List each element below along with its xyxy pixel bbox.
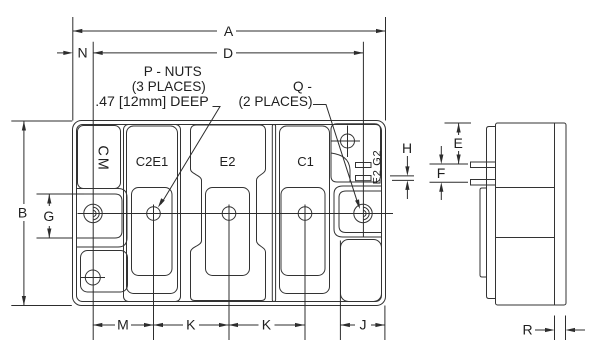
signal pin G2 [356, 163, 372, 168]
dimension N arrow (outside left) [57, 52, 64, 54]
dimension B extension bottom [11, 305, 72, 307]
svg-text:K: K [262, 317, 272, 333]
side view internal edge upper [496, 187, 555, 189]
centerline through C2E1 hole [153, 205, 155, 341]
dimension G extension bottom [37, 237, 73, 239]
svg-text:(2 PLACES): (2 PLACES) [238, 94, 312, 109]
svg-text:R: R [522, 322, 532, 338]
callout P leader line [161, 107, 220, 205]
dimension A extension line right [385, 17, 387, 121]
svg-text:C1: C1 [297, 154, 314, 169]
svg-text:H: H [402, 140, 412, 156]
Q hole left inner arc [93, 210, 96, 216]
corner hole crosshair horizontal [332, 140, 361, 142]
centerline through E2 hole [228, 205, 230, 341]
dimension D extension line left (through left Q hole, down to M) [92, 42, 94, 340]
svg-text:.47 [12mm] DEEP: .47 [12mm] DEEP [95, 94, 209, 110]
Q mounting hole left [84, 204, 102, 222]
recess C2E1 [132, 188, 173, 276]
callout Q leader line [313, 105, 359, 207]
dimension F extension line 2 [430, 181, 469, 183]
Q hole right counterbore arc [363, 207, 369, 219]
svg-text:B: B [18, 205, 27, 221]
svg-text:M: M [117, 317, 129, 333]
dimension F outside arrows [440, 146, 442, 155]
dimension A line [73, 30, 217, 32]
svg-text:P - NUTS: P - NUTS [144, 64, 202, 79]
svg-text:D: D [223, 45, 233, 61]
svg-text:F: F [437, 165, 446, 181]
svg-text:C2E1: C2E1 [136, 154, 169, 169]
side view pin 1 [471, 162, 496, 168]
svg-text:J: J [360, 317, 367, 333]
dimension M line [93, 324, 115, 326]
Q mounting hole right [354, 204, 372, 222]
P-nut hole E2 [222, 207, 236, 221]
dimension H lines [390, 175, 414, 177]
terminal compartment wall C2E1 [124, 125, 181, 302]
dimension G extension top [37, 193, 85, 195]
svg-text:A: A [224, 23, 234, 39]
corner hole crosshair vertical [347, 126, 349, 158]
side view left protrusion [480, 188, 487, 277]
side view base plate line [554, 123, 556, 305]
left ear inner lip [77, 194, 123, 238]
top-right signal block [331, 124, 381, 182]
terminal pad C1 [280, 126, 330, 294]
dimension K2 line [229, 324, 259, 326]
dimension B line [23, 121, 25, 204]
CM logo block [78, 126, 121, 189]
svg-text:G: G [43, 208, 54, 224]
bottom extension module right corner [384, 306, 386, 341]
dimension R line and arrows [535, 329, 546, 331]
side view internal edge lower [496, 237, 555, 239]
terminal pad E2 (dog-bone) [191, 125, 266, 301]
svg-text:E2 G2: E2 G2 [371, 150, 383, 185]
bottom-left mounting hole [85, 270, 100, 285]
dimension A extension line left [72, 17, 74, 121]
dimension K1 line [154, 324, 184, 326]
dimension D extension line right (through right Q hole) [362, 42, 364, 237]
module inner lip contour [77, 125, 382, 302]
dimension G line [48, 194, 50, 206]
svg-text:N: N [77, 45, 87, 61]
svg-text:(3 PLACES): (3 PLACES) [132, 79, 206, 94]
svg-text:Q -: Q - [293, 79, 312, 94]
Q hole right inner arc [363, 210, 366, 216]
left mounting ear [77, 189, 128, 248]
signal block inner curve [331, 153, 350, 182]
svg-text:E2: E2 [220, 154, 236, 169]
corner hole top-right [341, 134, 355, 148]
bottom-right corner block [341, 240, 382, 302]
terminal pad C2E1 [127, 126, 178, 294]
main horizontal centerline [78, 213, 394, 215]
dimension B extension top [11, 120, 72, 122]
divider strip between E2 and C1 [272, 125, 275, 302]
P-nut hole C1 [298, 207, 312, 221]
centerline through C1 hole [304, 205, 306, 341]
recess C1 [281, 188, 325, 276]
right ear inner lip [339, 191, 382, 233]
svg-text:K: K [186, 317, 196, 333]
bottom-left corner block [81, 251, 128, 293]
bottom-left hole crosshair [81, 277, 105, 279]
dimension F extension line 1 [430, 163, 469, 165]
svg-text:E: E [454, 135, 463, 151]
recess E2 [206, 188, 250, 276]
side view pin 2 [471, 180, 496, 186]
module outer case outline (top view) [73, 121, 386, 306]
P-nut hole C2E1 [147, 207, 161, 221]
signal pin E2 [356, 176, 372, 181]
dimension E line [458, 123, 460, 135]
svg-text:CM: CM [95, 145, 111, 171]
side view lid strip [487, 127, 496, 299]
dimension D line [93, 52, 217, 54]
dimension J line [340, 324, 355, 326]
right mounting ear [334, 186, 382, 237]
dimension H arrows [406, 156, 408, 168]
dimension R extension lines [554, 316, 556, 341]
bottom extension line C1 to J-block (vertical at 340.4) [339, 241, 341, 341]
dimension E extension top [445, 122, 472, 124]
side view main body [496, 123, 567, 305]
Q hole left counterbore arc [93, 207, 99, 219]
